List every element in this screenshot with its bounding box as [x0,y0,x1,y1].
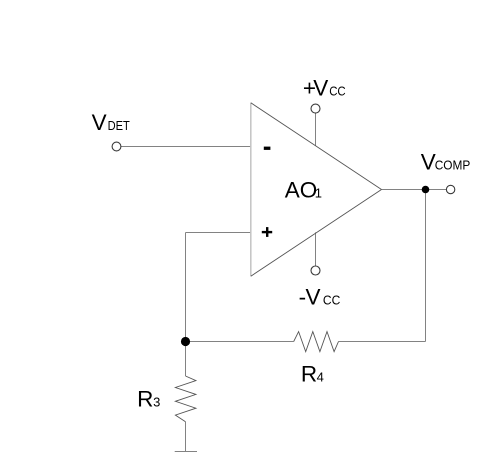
svg-text:R: R [301,361,317,386]
svg-text:COMP: COMP [435,157,471,172]
svg-text:CC: CC [323,293,340,308]
svg-text:AO: AO [285,177,318,202]
svg-text:V: V [313,75,328,100]
svg-text:4: 4 [317,369,324,384]
svg-text:V: V [421,149,436,174]
svg-text:1: 1 [315,185,322,200]
svg-text:3: 3 [153,394,160,409]
svg-text:DET: DET [108,118,130,133]
svg-text:V: V [92,110,107,135]
svg-text:V: V [306,285,321,310]
svg-text:R: R [137,386,153,411]
svg-text:CC: CC [329,83,346,98]
